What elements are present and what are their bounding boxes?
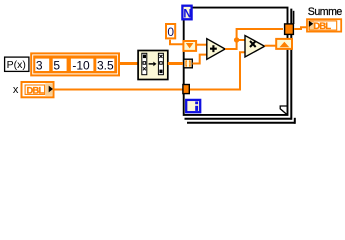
tunnel for x on left loop border [183, 85, 189, 94]
wire junction to multiply upper input [237, 39, 246, 41]
tunnel auto-index [] on left loop border [184, 59, 193, 68]
for loop main border rectangle [184, 8, 288, 115]
left array column [142, 53, 147, 74]
function add [207, 39, 225, 60]
for loop shadow sheet 2 bottom edge [185, 118, 292, 120]
array element 3.5 [96, 59, 114, 71]
array element -10 [71, 59, 94, 71]
svg-text:P(x): P(x) [7, 59, 26, 71]
wire array to reverse node [120, 62, 138, 65]
for loop shadow sheet 3 right stub top [293, 11, 295, 24]
svg-text:0: 0 [167, 25, 174, 39]
control x DBL [22, 82, 54, 97]
function multiply [245, 36, 265, 58]
right array column [158, 53, 163, 74]
shift register left terminal [183, 41, 196, 51]
for loop shadow sheet 3 bottom edge [187, 122, 295, 124]
terminal i iteration [186, 100, 200, 112]
svg-text:Summe: Summe [308, 6, 343, 18]
svg-text:3: 3 [36, 58, 43, 72]
wire tunnel to add lower input [192, 55, 207, 64]
constant 0 [166, 24, 175, 38]
svg-text:5: 5 [53, 58, 60, 72]
svg-text:DBL: DBL [27, 85, 45, 95]
svg-text:3.5: 3.5 [97, 58, 114, 72]
wire add output to junction and up to top tunnel [225, 29, 283, 49]
wire x control to multiply lower input [55, 52, 246, 89]
wire 0 to left shift register [170, 40, 183, 45]
svg-text:N: N [183, 9, 191, 21]
arrow [149, 63, 154, 65]
wire tunnel to Summe indicator [294, 27, 307, 29]
svg-text:DBL: DBL [313, 21, 331, 31]
tunnel output Summe on right loop border [285, 24, 294, 35]
junction dot [234, 37, 239, 42]
terminal N count [182, 6, 191, 20]
shift register right terminal [276, 39, 292, 49]
for loop page fold corner [280, 106, 287, 115]
for loop shadow sheet 3 right stub bottom [294, 118, 296, 124]
wire reverse node to loop tunnel [168, 62, 184, 65]
svg-text:-10: -10 [72, 58, 90, 72]
function Reverse 1D Array [138, 51, 168, 80]
wire multiply to right shift register [265, 45, 276, 47]
wire shift register to add [196, 44, 207, 46]
for loop shadow sheet 2 right edge [290, 9, 292, 120]
array element 5 [53, 59, 67, 71]
svg-text:x: x [13, 84, 19, 96]
indicator Summe DBL [307, 19, 341, 31]
for loop N (frame with stacked-sheet shadow and page fold) [184, 8, 295, 124]
array element 3 [35, 59, 49, 71]
node P(x) label box [5, 57, 29, 71]
constant array P(x) shell [31, 53, 119, 75]
